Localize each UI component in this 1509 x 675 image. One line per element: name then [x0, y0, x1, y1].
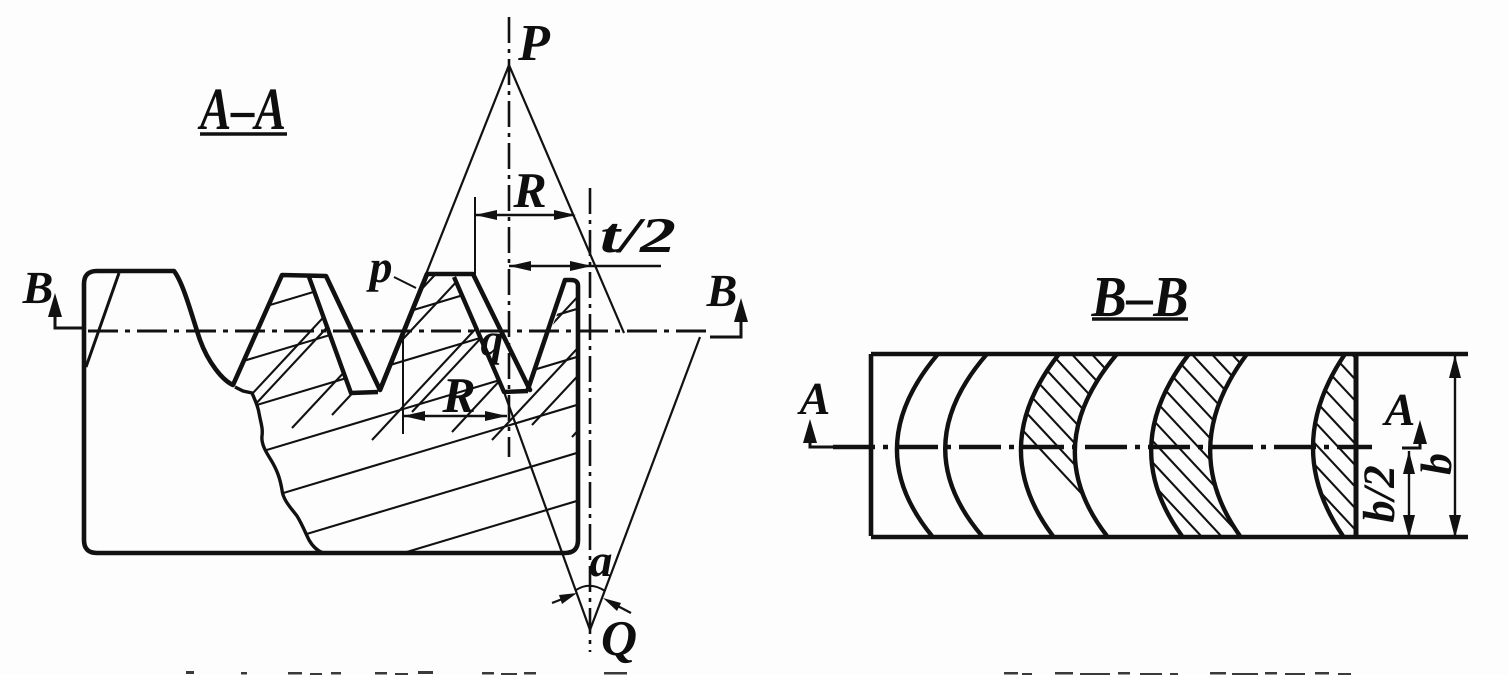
inner flank band line tooth 2 + valley floor: [309, 277, 378, 393]
inner flank band line tooth 3 + valley floor: [454, 277, 528, 392]
section marker B right: [710, 304, 741, 337]
worm outline rectangle B-B: [871, 352, 1468, 357]
svg-text:R: R: [512, 162, 546, 218]
helix arc 4: [1075, 354, 1117, 536]
dimension b/2: [1408, 451, 1410, 537]
section marker A right: [1402, 427, 1420, 448]
section marker B left: [55, 299, 84, 328]
helix arc 2: [945, 354, 987, 536]
svg-text:A: A: [1382, 384, 1416, 435]
helix arc 6: [1210, 354, 1247, 536]
horizontal centreline (pitch line): [88, 330, 708, 333]
bottom caption fragments (cut-off text tops): [186, 671, 1351, 675]
svg-text:R: R: [441, 367, 475, 423]
svg-text:A–A: A–A: [197, 76, 286, 142]
triangle P left side: [380, 65, 509, 390]
hatching (steep family) in thread tooth strip: [212, 263, 734, 440]
helix arc 3: [1021, 354, 1059, 536]
dimension b: [1454, 355, 1456, 537]
dimension R (lower): [402, 337, 404, 434]
svg-text:b/2: b/2: [1354, 465, 1404, 523]
helix arc 7: [1313, 354, 1345, 536]
svg-text:t/2: t/2: [600, 207, 676, 263]
hatching (shallow family) of worm body section: [180, 152, 620, 668]
flank line in un-sectioned left tooth: [86, 273, 119, 367]
crescent hatching: [920, 320, 1509, 610]
svg-text:P: P: [517, 15, 551, 72]
leader for p: [394, 277, 416, 288]
svg-text:q: q: [481, 314, 504, 365]
svg-text:a: a: [590, 535, 613, 586]
wavy break line: [235, 387, 323, 553]
worm body outline with thread teeth: [84, 271, 578, 553]
vertical centreline through Q: [589, 188, 592, 652]
triangle Q right side: [590, 337, 700, 630]
svg-text:A: A: [797, 373, 831, 424]
svg-text:b: b: [1412, 453, 1461, 475]
triangle Q left side: [504, 392, 590, 630]
svg-text:p: p: [366, 241, 393, 292]
tooth3 left flank emphasised: [380, 274, 427, 390]
helix arc 1: [897, 354, 938, 536]
dimension R (upper): [474, 197, 476, 277]
svg-text:B: B: [22, 262, 54, 313]
dimension t/2: [509, 265, 661, 267]
angle a arc and arrows at Q: [576, 586, 605, 591]
triangle P right side: [509, 65, 624, 333]
vertical centreline through P: [508, 17, 511, 457]
svg-text:B: B: [706, 265, 738, 316]
helix arc 5: [1151, 354, 1189, 536]
section marker A left: [810, 426, 833, 447]
axis centreline B-B: [833, 445, 1372, 449]
svg-text:Q: Q: [601, 610, 637, 666]
